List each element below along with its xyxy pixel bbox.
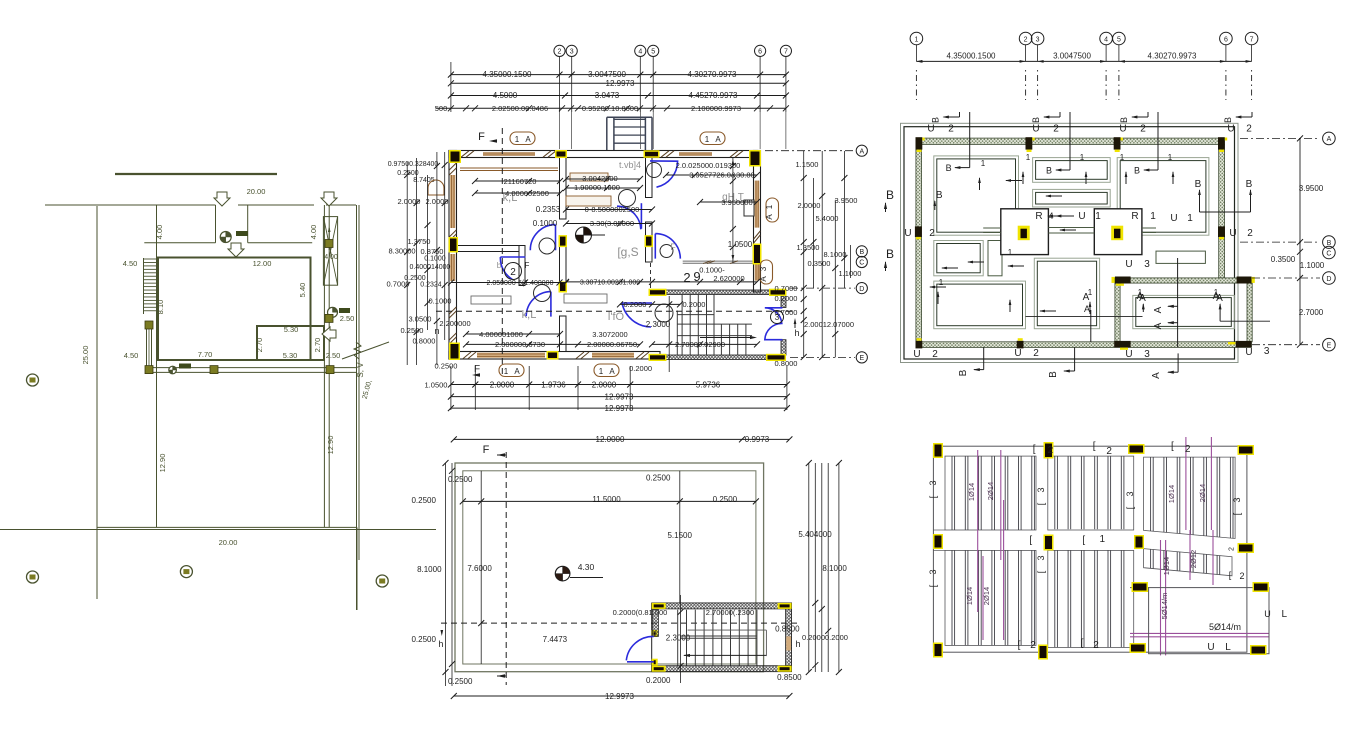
svg-text:U: U	[1078, 211, 1085, 222]
svg-text:0.8000: 0.8000	[413, 337, 436, 346]
room two top	[1033, 158, 1111, 183]
slab panel three slanted	[1144, 457, 1236, 538]
svg-text:2.02500.00.0486: 2.02500.00.0486	[492, 104, 548, 113]
svg-text:D: D	[859, 286, 864, 293]
room one	[934, 156, 1019, 235]
dim row 4	[436, 107, 786, 109]
svg-text:1Ø14: 1Ø14	[1162, 557, 1171, 575]
svg-text:2.7000: 2.7000	[1299, 308, 1324, 317]
svg-text:3: 3	[1036, 487, 1046, 492]
svg-text:F: F	[483, 444, 490, 456]
svg-text:2.0000: 2.0000	[398, 197, 421, 206]
top wall hatch marks	[461, 151, 469, 157]
stair hatch site	[144, 258, 158, 260]
centroid symbol hall	[576, 227, 592, 243]
svg-text:1.3750: 1.3750	[408, 237, 431, 246]
svg-text:0.2500: 0.2500	[435, 362, 458, 371]
interior dim row y282 centre	[566, 281, 757, 283]
svg-text:2Ø14: 2Ø14	[1198, 484, 1207, 502]
svg-text:2: 2	[1228, 547, 1235, 551]
roof stair door blue	[626, 636, 654, 661]
roof stair detail	[652, 603, 792, 609]
svg-text:2.050000-6(1.400000: 2.050000-6(1.400000	[487, 280, 554, 287]
svg-text:[g,S: [g,S	[617, 245, 638, 259]
svg-text:B: B	[859, 249, 864, 256]
svg-text:2: 2	[1185, 444, 1191, 455]
svg-text:4.45270.9973: 4.45270.9973	[689, 91, 738, 100]
svg-text:7.4473: 7.4473	[543, 635, 568, 644]
room five	[934, 281, 1026, 329]
benchmark circle C	[180, 566, 192, 578]
roof dashed horizontal	[441, 622, 800, 624]
sideboard bottom	[564, 294, 607, 303]
svg-text:4.30: 4.30	[578, 562, 595, 572]
svg-text:4.35000.1500: 4.35000.1500	[947, 52, 996, 61]
svg-text:1: 1	[1168, 153, 1173, 162]
svg-text:3.0047500: 3.0047500	[588, 70, 626, 79]
svg-text:0.2000: 0.2000	[683, 300, 706, 309]
svg-text:7.70: 7.70	[198, 350, 213, 359]
svg-text:A: A	[1327, 136, 1332, 143]
svg-text:2.0000: 2.0000	[592, 380, 617, 389]
annex outline	[257, 326, 324, 360]
svg-text:1: 1	[599, 367, 604, 376]
dim row 2	[451, 82, 786, 84]
svg-text:0.8500: 0.8500	[777, 673, 802, 682]
roof stair yellow blocks	[652, 603, 666, 609]
svg-text:0.2000: 0.2000	[775, 294, 798, 303]
column box R1	[1001, 209, 1049, 255]
south street line	[97, 526, 357, 528]
B arrow room1	[969, 112, 971, 168]
svg-text:12.9973: 12.9973	[605, 692, 634, 701]
svg-text:U: U	[1245, 347, 1252, 358]
svg-text:R: R	[1035, 211, 1042, 222]
svg-text:B: B	[1134, 166, 1140, 176]
svg-text:25.00,: 25.00,	[362, 379, 374, 400]
kitchen counter	[460, 167, 558, 169]
svg-text:7: 7	[784, 49, 788, 56]
tank rect with cross	[323, 217, 337, 286]
column plan outer rect	[901, 123, 1239, 362]
grid extension left	[450, 62, 452, 112]
entry arrow 3	[228, 243, 244, 257]
svg-text:1Ø14: 1Ø14	[965, 587, 974, 605]
interior wall one	[560, 158, 567, 220]
svg-text:U: U	[1125, 259, 1132, 270]
left wall band	[449, 151, 457, 360]
column plan top dim line	[916, 60, 1251, 62]
room seven	[1156, 251, 1205, 263]
svg-text:7.6000: 7.6000	[467, 564, 492, 573]
svg-text:A: A	[1151, 372, 1162, 379]
svg-text:4.50: 4.50	[124, 351, 139, 360]
svg-text:B: B	[1046, 166, 1052, 176]
door bottom left room	[526, 292, 551, 317]
room three	[1117, 158, 1209, 236]
svg-text:B: B	[1246, 179, 1253, 190]
roof stair right wall window	[786, 636, 791, 650]
interior wall two	[646, 158, 653, 198]
svg-text:2: 2	[1246, 124, 1252, 135]
benchmark circle A	[27, 374, 39, 386]
svg-text:1: 1	[1080, 153, 1085, 162]
roof small markers	[440, 630, 443, 636]
right room vertical dim	[732, 158, 734, 264]
perimeter hatch bands	[916, 138, 1225, 144]
svg-text:2: 2	[1093, 640, 1099, 651]
svg-text:A: A	[514, 367, 520, 376]
thin wall right room south	[683, 260, 758, 262]
svg-text:R: R	[1131, 211, 1138, 222]
bottom wall windows	[477, 353, 545, 358]
svg-text:B: B	[958, 369, 969, 376]
svg-text:U: U	[1207, 642, 1214, 653]
svg-text:0.2500: 0.2500	[411, 496, 436, 505]
svg-text:3: 3	[570, 49, 574, 56]
roof left dim verticals	[445, 463, 447, 686]
callout oval 1A top-left	[510, 132, 535, 145]
dim row 1	[451, 74, 786, 76]
black blocks top band	[916, 137, 923, 149]
site squiggle	[354, 342, 361, 359]
svg-text:t.vb]4: t.vb]4	[619, 160, 641, 170]
svg-text:5.30: 5.30	[284, 325, 299, 334]
svg-text:1.0500: 1.0500	[425, 381, 448, 390]
svg-text:3.9500: 3.9500	[1299, 184, 1324, 193]
column layout plan group	[901, 32, 1336, 379]
svg-text:0.7000: 0.7000	[775, 308, 798, 317]
roof bottom dim	[454, 695, 790, 697]
svg-text:3: 3	[928, 480, 938, 485]
svg-text:3.0473: 3.0473	[595, 91, 620, 100]
svg-text:[: [	[1081, 638, 1084, 649]
inner west line	[156, 205, 158, 527]
svg-text:B: B	[886, 247, 894, 261]
svg-text:E: E	[859, 355, 864, 362]
svg-text:2Ø14: 2Ø14	[982, 587, 991, 605]
annex inner room	[1133, 295, 1235, 328]
svg-text:A: A	[1084, 304, 1090, 314]
partition left room	[449, 246, 524, 252]
left wall window tan 2	[450, 254, 455, 281]
small arrows centre rooms	[1006, 180, 1022, 182]
survey bar tank	[339, 308, 350, 313]
svg-text:1: 1	[515, 135, 520, 144]
svg-text:0.9973: 0.9973	[745, 435, 770, 444]
svg-text:0.2324: 0.2324	[420, 282, 442, 289]
svg-text:5.40: 5.40	[298, 283, 307, 298]
east plot double line	[356, 205, 358, 610]
gate posts	[146, 328, 148, 367]
site plan group	[0, 174, 436, 610]
dashdot lines to right circles	[765, 150, 855, 152]
svg-text:0.8000: 0.8000	[775, 359, 798, 368]
south east stub	[356, 527, 358, 610]
room four	[934, 241, 983, 276]
svg-text:5: 5	[1117, 37, 1121, 44]
fixture right top	[744, 200, 754, 216]
svg-text:l'fO: l'fO	[608, 311, 625, 323]
slab ribs panel3 slanted	[1150, 457, 1152, 531]
svg-text:4: 4	[1104, 37, 1108, 44]
slab panel borders	[945, 456, 1036, 530]
door bath small	[500, 257, 525, 280]
bottom extension lines	[450, 366, 452, 410]
svg-text:8.10: 8.10	[156, 300, 165, 315]
svg-text:2: 2	[1106, 446, 1112, 457]
svg-text:0.2500: 0.2500	[646, 474, 671, 483]
long A arrow inside plan	[1090, 310, 1092, 342]
callout oval 2 small bath	[505, 263, 522, 280]
svg-text:h: h	[794, 328, 799, 338]
roof plan group	[411, 435, 847, 701]
svg-text:1.9736: 1.9736	[541, 380, 566, 389]
svg-text:2.0000: 2.0000	[798, 201, 821, 210]
svg-text:1.1000: 1.1000	[1300, 261, 1325, 270]
fence double line	[146, 367, 356, 369]
svg-text:F: F	[670, 242, 676, 252]
svg-text:2Ø14: 2Ø14	[986, 482, 995, 500]
svg-text:2: 2	[929, 228, 935, 239]
svg-text:B: B	[1119, 117, 1129, 123]
roof inner dim verticals	[480, 471, 482, 664]
svg-text:0.95200.10.8600: 0.95200.10.8600	[582, 104, 638, 113]
svg-text:2.70: 2.70	[255, 338, 264, 353]
svg-text:1: 1	[981, 159, 986, 168]
dim row 3	[451, 95, 786, 97]
west plot line	[96, 206, 98, 599]
svg-text:2: 2	[1239, 571, 1244, 581]
roof inner rect	[463, 471, 756, 664]
grid circles right column plan	[1323, 132, 1336, 145]
svg-text:0.2000: 0.2000	[646, 676, 671, 685]
svg-text:5: 5	[651, 49, 655, 56]
porch stair	[607, 116, 652, 118]
stair dim extension	[668, 296, 670, 372]
svg-text:5Ø14/m: 5Ø14/m	[1209, 622, 1241, 632]
svg-text:U: U	[913, 349, 920, 360]
svg-text:F: F	[474, 364, 480, 375]
svg-text:3: 3	[1232, 497, 1242, 502]
svg-text:S, V: S, V	[356, 362, 365, 378]
svg-text:B: B	[1048, 371, 1059, 378]
north boundary bold line	[115, 173, 277, 175]
svg-text:h: h	[438, 639, 443, 649]
door kL room	[530, 225, 555, 251]
svg-text:12.90: 12.90	[158, 454, 167, 473]
svg-text:2.70: 2.70	[313, 338, 322, 353]
slab ribs panel1	[951, 456, 953, 530]
svg-text:[: [	[1171, 441, 1174, 452]
wall2 dashed lower segment	[650, 263, 652, 289]
svg-text:4: 4	[638, 49, 642, 56]
svg-text:A: A	[525, 135, 531, 144]
svg-text:U: U	[904, 228, 911, 239]
svg-text:1: 1	[914, 37, 918, 44]
svg-text:20.00: 20.00	[247, 187, 266, 196]
svg-text:A: A	[765, 214, 774, 220]
right wall hatches	[754, 231, 761, 239]
roof letter F bottom arrow	[497, 674, 505, 678]
svg-text:[: [	[1036, 570, 1046, 573]
svg-text:3: 3	[1144, 349, 1150, 360]
callout oval right 1A rot	[766, 198, 779, 222]
grid circles right A-E	[856, 145, 867, 156]
svg-text:U: U	[1014, 348, 1021, 359]
stair bottom hatched wall	[666, 355, 767, 360]
svg-text:A: A	[609, 367, 615, 376]
svg-text:2.3000: 2.3000	[646, 320, 671, 329]
svg-text:[: [	[1232, 512, 1242, 515]
street edge line	[45, 204, 216, 206]
svg-text:A: A	[715, 135, 721, 144]
svg-text:A: A	[1216, 293, 1223, 304]
svg-text:5.30: 5.30	[283, 351, 298, 360]
svg-text:0.2500: 0.2500	[401, 326, 424, 335]
callout oval 1A bottom-left	[499, 364, 524, 377]
svg-text:0.2000(0.81.000: 0.2000(0.81.000	[613, 608, 668, 617]
door living gS	[655, 234, 680, 259]
annex corner blocks	[1115, 277, 1131, 284]
svg-text:B: B	[1223, 117, 1233, 123]
interior dim lines	[475, 180, 560, 182]
svg-text:L: L	[1282, 609, 1288, 620]
roof stair treads	[677, 610, 679, 666]
stair right hatched wall	[781, 295, 786, 308]
svg-text:2Ø12: 2Ø12	[1189, 550, 1198, 568]
svg-text:3.9500: 3.9500	[835, 196, 858, 205]
right wall window tan 2	[755, 264, 760, 281]
svg-text:6: 6	[758, 49, 762, 56]
svg-text:3: 3	[759, 266, 768, 271]
stair rails	[676, 311, 678, 356]
tank centre line	[328, 196, 330, 527]
svg-text:b: b	[497, 261, 502, 270]
svg-text:1.1000: 1.1000	[839, 269, 862, 278]
floor plan group	[387, 45, 894, 413]
svg-text:[: [	[1029, 535, 1032, 546]
svg-text:2.50: 2.50	[326, 351, 341, 360]
svg-text:2: 2	[1053, 124, 1059, 135]
svg-text:1.0500: 1.0500	[728, 240, 753, 249]
svg-text:1: 1	[1026, 153, 1031, 162]
room four b	[988, 241, 1002, 276]
svg-text:12.0000: 12.0000	[596, 435, 625, 444]
slab mid strip lines	[933, 529, 945, 531]
small vertical arrows	[979, 178, 981, 190]
bottom dim row 1	[451, 384, 787, 386]
svg-text:3: 3	[1144, 259, 1150, 270]
svg-text:2: 2	[948, 124, 954, 135]
bottom wall band	[449, 352, 660, 360]
stair up arrow	[700, 337, 754, 339]
svg-text:U: U	[1170, 213, 1177, 224]
grid circles top	[554, 45, 565, 56]
callout 3 stair	[771, 311, 784, 324]
svg-text:7: 7	[1250, 37, 1254, 44]
svg-text:C: C	[859, 260, 864, 267]
slab plan group	[928, 437, 1288, 660]
svg-text:3: 3	[1264, 346, 1270, 357]
svg-text:U: U	[927, 124, 934, 135]
top wall band	[449, 151, 758, 158]
svg-text:8.1000: 8.1000	[417, 565, 442, 574]
bottom wall hatches	[463, 352, 471, 359]
svg-text:3: 3	[1036, 37, 1040, 44]
section line dashed horizontal	[436, 310, 793, 312]
svg-text:0.2000: 0.2000	[629, 364, 652, 373]
svg-text:4.5000: 4.5000	[493, 91, 518, 100]
svg-text:1: 1	[765, 204, 774, 209]
fixture circles	[647, 163, 662, 178]
slab ribs panel6 slanted	[1150, 549, 1152, 568]
left cluster door arch symbol	[428, 180, 444, 195]
stair corner columns	[649, 289, 667, 296]
columns floor plan	[449, 150, 461, 163]
svg-text:U: U	[1264, 609, 1271, 619]
svg-text:U: U	[1229, 228, 1236, 239]
svg-text:8.30000: 8.30000	[388, 247, 415, 256]
B arrow room2	[1069, 112, 1071, 170]
callout oval 1A bottom-mid	[594, 364, 619, 377]
slab panel six slanted	[1144, 549, 1232, 576]
interior dim row y282	[451, 282, 566, 284]
door lfO room	[622, 303, 652, 327]
svg-text:A: A	[1139, 293, 1146, 304]
left wall hatches	[449, 163, 456, 170]
tank arrow	[328, 228, 330, 250]
svg-text:1Ø14: 1Ø14	[967, 483, 976, 501]
svg-text:2: 2	[1140, 124, 1146, 135]
section line F vertical dashed	[501, 128, 503, 374]
roof section F dashed	[505, 452, 507, 685]
svg-text:0.1000: 0.1000	[429, 297, 452, 306]
survey circle tank	[328, 307, 338, 317]
svg-text:2: 2	[932, 349, 938, 360]
slab ribs panel5	[1054, 550, 1056, 647]
svg-text:4.00: 4.00	[155, 225, 164, 240]
svg-text:500: 500	[435, 104, 448, 113]
annex arrows	[1168, 305, 1178, 307]
svg-text:[: [	[1036, 502, 1046, 505]
svg-text:3.3072000: 3.3072000	[592, 330, 627, 339]
svg-text:[: [	[1033, 444, 1036, 455]
site leader diagonal	[342, 342, 389, 359]
entry arrow 2	[321, 192, 337, 206]
svg-text:A: A	[1083, 292, 1090, 303]
door t.vb top	[650, 161, 678, 187]
svg-text:1: 1	[1187, 213, 1193, 224]
roof dim 12.0000 line	[454, 438, 790, 440]
svg-text:1: 1	[1150, 211, 1156, 222]
svg-text:2: 2	[683, 270, 690, 285]
svg-text:L: L	[1225, 642, 1231, 653]
svg-text:5.9736: 5.9736	[696, 380, 721, 389]
slab purple annex horizontals	[1130, 632, 1269, 634]
svg-text:B: B	[946, 163, 952, 173]
svg-text:4.30270.9973: 4.30270.9973	[688, 70, 737, 79]
svg-text:0.2500: 0.2500	[411, 635, 436, 644]
svg-text:12.9973: 12.9973	[606, 79, 635, 88]
svg-text:3.0047500: 3.0047500	[1053, 52, 1091, 61]
dashdot extensions right	[1240, 137, 1320, 139]
svg-text:A: A	[759, 276, 768, 282]
svg-text:[: [	[1018, 640, 1021, 651]
svg-text:2: 2	[1048, 445, 1054, 456]
svg-text:F: F	[478, 131, 485, 143]
svg-text:0.7000: 0.7000	[387, 280, 410, 289]
